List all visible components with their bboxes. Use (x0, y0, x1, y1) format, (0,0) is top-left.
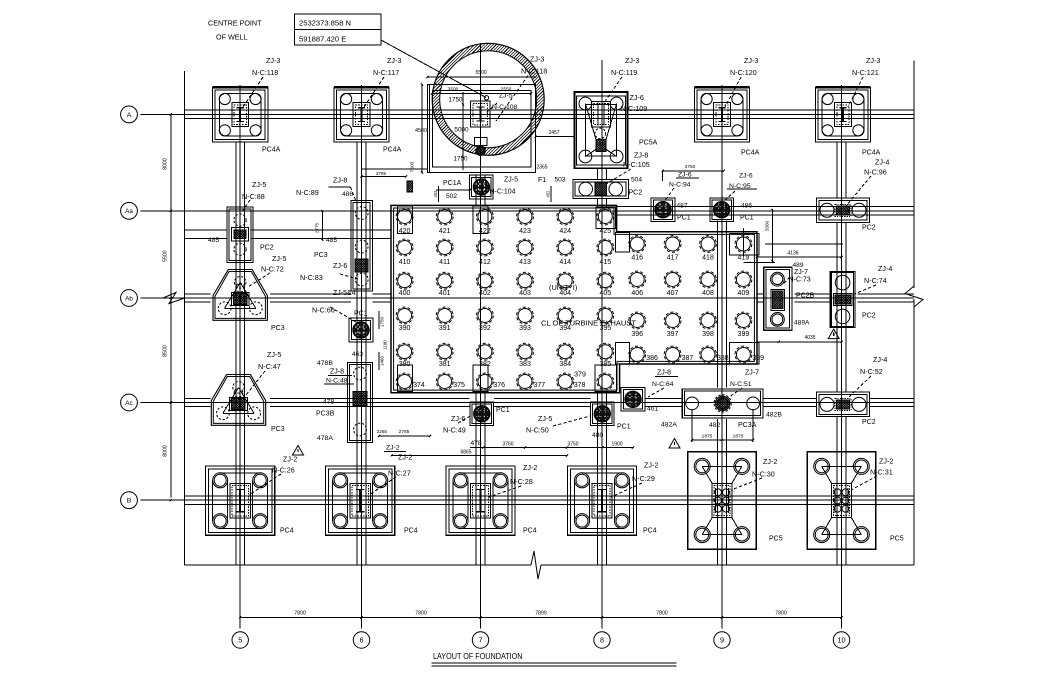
svg-text:N-C:104: N-C:104 (490, 189, 516, 196)
svg-text:N-C:47: N-C:47 (258, 362, 281, 371)
svg-text:PC3: PC3 (314, 252, 328, 259)
svg-text:PC4A: PC4A (383, 147, 402, 154)
svg-text:ZJ-3: ZJ-3 (266, 56, 280, 65)
svg-text:N-C:51: N-C:51 (730, 381, 752, 388)
svg-text:4035: 4035 (804, 335, 815, 341)
svg-text:7: 7 (479, 636, 483, 645)
svg-text:405: 405 (599, 290, 611, 297)
svg-text:463: 463 (352, 351, 363, 358)
svg-text:N-C:27: N-C:27 (388, 469, 411, 478)
svg-text:385: 385 (599, 361, 611, 368)
svg-text:ZJ-6: ZJ-6 (739, 173, 753, 180)
svg-text:PC4A: PC4A (262, 147, 281, 154)
svg-text:ZJ-5: ZJ-5 (538, 414, 552, 423)
svg-text:N-C:109: N-C:109 (621, 104, 648, 113)
svg-text:PC2: PC2 (862, 419, 876, 426)
svg-text:ZJ-6: ZJ-6 (678, 172, 692, 179)
svg-text:PC4: PC4 (280, 528, 294, 535)
svg-text:421: 421 (439, 228, 451, 235)
svg-text:PC1A: PC1A (443, 180, 462, 187)
svg-text:383: 383 (519, 361, 531, 368)
svg-text:ZJ-4: ZJ-4 (873, 355, 887, 364)
svg-text:3300: 3300 (765, 220, 770, 231)
svg-text:415: 415 (599, 259, 611, 266)
svg-text:N-C:64: N-C:64 (652, 381, 674, 388)
svg-text:N-C:88: N-C:88 (242, 192, 265, 201)
svg-text:478: 478 (323, 399, 335, 406)
svg-text:ZJ-2: ZJ-2 (644, 461, 658, 470)
svg-text:PC1: PC1 (677, 215, 691, 222)
svg-text:PC4: PC4 (643, 528, 657, 535)
svg-text:393: 393 (519, 325, 531, 332)
svg-text:8000: 8000 (163, 445, 169, 457)
svg-text:7800: 7800 (775, 611, 787, 617)
svg-text:425: 425 (599, 228, 611, 235)
svg-text:PC3: PC3 (271, 325, 285, 332)
svg-text:N-C:28: N-C:28 (510, 477, 533, 486)
svg-text:2775: 2775 (315, 222, 320, 233)
svg-text:ZJ-5: ZJ-5 (272, 254, 286, 263)
svg-text:1875: 1875 (733, 434, 744, 440)
svg-text:ZJ-6: ZJ-6 (333, 261, 347, 270)
svg-text:F1: F1 (538, 177, 546, 184)
svg-text:5500: 5500 (475, 70, 486, 76)
svg-text:418: 418 (702, 255, 714, 262)
svg-text:ZJ-8: ZJ-8 (657, 370, 671, 377)
svg-text:419: 419 (738, 255, 750, 262)
svg-text:8: 8 (600, 636, 604, 645)
svg-text:2785: 2785 (376, 171, 387, 176)
svg-text:5500: 5500 (163, 250, 169, 262)
svg-text:389: 389 (752, 355, 764, 362)
svg-text:386: 386 (646, 355, 658, 362)
svg-text:N-C:29: N-C:29 (632, 474, 655, 483)
svg-text:PC2: PC2 (629, 190, 643, 197)
svg-text:424: 424 (559, 228, 571, 235)
svg-text:392: 392 (479, 325, 491, 332)
svg-text:PC3B: PC3B (316, 411, 335, 418)
svg-text:379: 379 (574, 372, 586, 379)
svg-text:N-C:108: N-C:108 (492, 104, 518, 111)
svg-text:503: 503 (555, 177, 566, 184)
svg-text:N-C:50: N-C:50 (526, 426, 549, 435)
svg-text:412: 412 (479, 259, 491, 266)
svg-text:397: 397 (667, 331, 679, 338)
svg-text:6: 6 (360, 636, 364, 645)
svg-text:ZJ-3: ZJ-3 (530, 55, 544, 64)
svg-text:3760: 3760 (502, 442, 513, 448)
svg-text:N-C:94: N-C:94 (669, 182, 691, 189)
svg-text:ZJ-2: ZJ-2 (386, 445, 400, 452)
svg-text:478: 478 (470, 440, 482, 447)
svg-text:591887.420 E: 591887.420 E (299, 35, 346, 44)
svg-text:390: 390 (399, 325, 411, 332)
svg-text:420: 420 (399, 228, 411, 235)
svg-text:485: 485 (326, 237, 337, 244)
svg-text:7800: 7800 (294, 611, 306, 617)
svg-text:407: 407 (667, 290, 679, 297)
svg-text:Ab: Ab (125, 295, 133, 302)
svg-text:ZJ-2: ZJ-2 (398, 453, 412, 462)
svg-text:PC2B: PC2B (796, 293, 815, 300)
svg-text:PC5: PC5 (890, 536, 904, 543)
svg-text:482A: 482A (661, 422, 677, 429)
svg-text:PC5: PC5 (769, 536, 783, 543)
svg-text:4500: 4500 (415, 128, 427, 134)
svg-text:N-C:121: N-C:121 (852, 68, 879, 77)
svg-text:8000: 8000 (163, 158, 169, 170)
svg-text:408: 408 (702, 290, 714, 297)
svg-text:2457: 2457 (548, 130, 559, 136)
svg-text:461: 461 (647, 406, 659, 413)
svg-text:PC1: PC1 (354, 311, 368, 318)
svg-text:422: 422 (479, 228, 491, 235)
svg-text:CENTRE POINT: CENTRE POINT (208, 19, 262, 28)
svg-text:387: 387 (682, 355, 694, 362)
svg-text:ZJ-7: ZJ-7 (745, 370, 759, 377)
svg-text:1750: 1750 (380, 316, 385, 327)
svg-text:399: 399 (738, 331, 750, 338)
svg-text:402: 402 (479, 290, 491, 297)
svg-text:PC1: PC1 (617, 424, 631, 431)
svg-text:N-C:117: N-C:117 (373, 68, 399, 77)
svg-text:504: 504 (631, 177, 642, 184)
svg-text:ZJ-2: ZJ-2 (523, 463, 537, 472)
svg-text:391: 391 (439, 325, 451, 332)
svg-text:1180: 1180 (383, 340, 388, 350)
svg-text:380: 380 (399, 361, 411, 368)
svg-text:3750: 3750 (567, 442, 578, 448)
svg-text:398: 398 (702, 331, 714, 338)
svg-text:478B: 478B (317, 360, 333, 367)
svg-text:1460: 1460 (380, 355, 385, 366)
svg-text:6865: 6865 (460, 450, 471, 456)
svg-text:PC4: PC4 (404, 528, 418, 535)
svg-text:ZJ-8: ZJ-8 (634, 151, 648, 160)
svg-text:N-C:31: N-C:31 (870, 468, 893, 477)
svg-text:7500: 7500 (410, 161, 416, 172)
svg-text:486: 486 (741, 203, 752, 210)
svg-text:489: 489 (793, 262, 804, 269)
svg-text:Aa: Aa (125, 208, 133, 215)
svg-text:482B: 482B (766, 412, 782, 419)
svg-text:PC1: PC1 (740, 215, 754, 222)
svg-text:PC4A: PC4A (862, 150, 881, 157)
svg-text:ZJ-3: ZJ-3 (866, 56, 880, 65)
svg-text:382: 382 (479, 361, 491, 368)
svg-text:PC3A: PC3A (738, 422, 757, 429)
svg-text:384: 384 (559, 361, 571, 368)
svg-text:ZJ-5: ZJ-5 (267, 350, 281, 359)
svg-text:5: 5 (238, 636, 242, 645)
svg-text:N-C:66: N-C:66 (312, 306, 335, 315)
svg-text:PC4: PC4 (523, 528, 537, 535)
svg-text:411: 411 (439, 259, 450, 266)
svg-text:485: 485 (208, 237, 219, 244)
svg-text:2365: 2365 (536, 165, 547, 171)
svg-text:PC2: PC2 (862, 313, 876, 320)
svg-text:N-C:52: N-C:52 (860, 367, 883, 376)
svg-text:4136: 4136 (787, 251, 798, 257)
svg-text:3750: 3750 (685, 164, 696, 170)
svg-text:ZJ-6: ZJ-6 (630, 93, 644, 102)
svg-text:N-C:30: N-C:30 (752, 470, 775, 479)
svg-text:N-C:118: N-C:118 (252, 68, 278, 77)
svg-text:N-C:89: N-C:89 (296, 188, 319, 197)
svg-text:ZJ-5&4: ZJ-5&4 (333, 290, 356, 297)
svg-text:416: 416 (631, 255, 643, 262)
svg-text:N-C:119: N-C:119 (611, 68, 637, 77)
svg-text:PC1: PC1 (496, 407, 510, 414)
svg-text:413: 413 (519, 259, 531, 266)
svg-text:381: 381 (439, 361, 451, 368)
svg-text:377: 377 (534, 382, 546, 389)
svg-text:9: 9 (720, 636, 724, 645)
svg-text:5000: 5000 (454, 127, 469, 134)
svg-text:ZJ-8: ZJ-8 (333, 176, 347, 185)
svg-text:401: 401 (439, 290, 451, 297)
svg-text:N-C:83: N-C:83 (300, 273, 323, 282)
svg-text:3500: 3500 (448, 87, 459, 93)
svg-text:452: 452 (433, 190, 438, 198)
svg-text:ZJ-4: ZJ-4 (878, 264, 892, 273)
svg-text:ZJ-2: ZJ-2 (283, 455, 297, 464)
svg-text:PC2: PC2 (862, 225, 876, 232)
svg-text:2265: 2265 (377, 429, 388, 434)
svg-text:ZJ-2: ZJ-2 (879, 457, 893, 466)
svg-text:396: 396 (631, 331, 643, 338)
svg-text:388: 388 (717, 355, 729, 362)
svg-text:410: 410 (399, 259, 411, 266)
svg-text:(UNIT- I): (UNIT- I) (549, 283, 577, 292)
svg-text:ZJ-8: ZJ-8 (330, 369, 344, 376)
svg-text:ZJ-3: ZJ-3 (625, 56, 639, 65)
svg-text:480: 480 (592, 432, 604, 439)
svg-text:PC2: PC2 (260, 245, 274, 252)
svg-text:ZJ-5: ZJ-5 (252, 180, 266, 189)
svg-text:ZJ-3: ZJ-3 (387, 56, 401, 65)
svg-text:406: 406 (631, 290, 643, 297)
svg-text:417: 417 (667, 255, 679, 262)
svg-text:7800: 7800 (656, 611, 668, 617)
svg-text:482: 482 (709, 422, 721, 429)
svg-text:ZJ-5: ZJ-5 (504, 177, 518, 184)
svg-text:375: 375 (453, 382, 465, 389)
svg-text:403: 403 (519, 290, 531, 297)
svg-text:ZJ-4: ZJ-4 (875, 158, 889, 167)
svg-text:N-C:120: N-C:120 (730, 68, 757, 77)
svg-text:423: 423 (519, 228, 531, 235)
svg-text:10: 10 (838, 636, 846, 645)
svg-text:378: 378 (574, 382, 586, 389)
svg-text:7800: 7800 (415, 611, 427, 617)
svg-text:N-C:74: N-C:74 (864, 276, 887, 285)
svg-text:1750: 1750 (448, 97, 463, 104)
svg-text:2532373.858 N: 2532373.858 N (299, 19, 351, 28)
svg-text:2785: 2785 (399, 429, 410, 435)
svg-text:486: 486 (342, 191, 353, 198)
svg-text:489A: 489A (794, 320, 810, 327)
svg-text:ZJ-3: ZJ-3 (744, 56, 758, 65)
svg-text:8500: 8500 (163, 345, 169, 357)
svg-text:409: 409 (738, 290, 750, 297)
svg-text:Ac: Ac (125, 400, 133, 407)
svg-text:ZJ-5: ZJ-5 (499, 93, 513, 100)
svg-text:452: 452 (546, 190, 551, 198)
svg-text:N-C:96: N-C:96 (864, 168, 887, 177)
svg-text:487: 487 (677, 203, 688, 210)
svg-text:400: 400 (399, 290, 411, 297)
svg-text:1750: 1750 (453, 156, 468, 163)
svg-text:N-C:105: N-C:105 (623, 160, 650, 169)
svg-text:CL OF TURBINE EXHAUST: CL OF TURBINE EXHAUST (541, 319, 636, 328)
svg-text:376: 376 (493, 382, 505, 389)
svg-text:OF WELL: OF WELL (216, 33, 248, 42)
svg-text:A: A (127, 112, 132, 119)
svg-text:414: 414 (559, 259, 571, 266)
svg-text:N-C:118: N-C:118 (521, 67, 547, 76)
svg-text:7899: 7899 (535, 611, 547, 617)
svg-text:N-C:48: N-C:48 (326, 378, 348, 385)
svg-text:LAYOUT OF FOUNDATION: LAYOUT OF FOUNDATION (433, 651, 523, 661)
svg-text:ZJ-2: ZJ-2 (763, 457, 777, 466)
svg-text:PC3: PC3 (271, 426, 285, 433)
svg-text:PC4A: PC4A (741, 150, 760, 157)
svg-text:1875: 1875 (702, 434, 713, 440)
svg-text:N-C:49: N-C:49 (443, 426, 466, 435)
svg-text:374: 374 (413, 382, 425, 389)
svg-text:B: B (127, 498, 132, 505)
svg-text:ZJ-7: ZJ-7 (794, 269, 808, 276)
svg-text:N-C:72: N-C:72 (261, 265, 284, 274)
svg-text:N-C:73: N-C:73 (789, 277, 811, 284)
svg-text:502: 502 (446, 193, 457, 200)
svg-text:N-C:26: N-C:26 (272, 466, 295, 475)
svg-text:ZJ-6: ZJ-6 (451, 414, 465, 423)
svg-text:1900: 1900 (611, 442, 622, 448)
svg-text:PC5A: PC5A (639, 140, 658, 147)
svg-text:478A: 478A (317, 435, 333, 442)
